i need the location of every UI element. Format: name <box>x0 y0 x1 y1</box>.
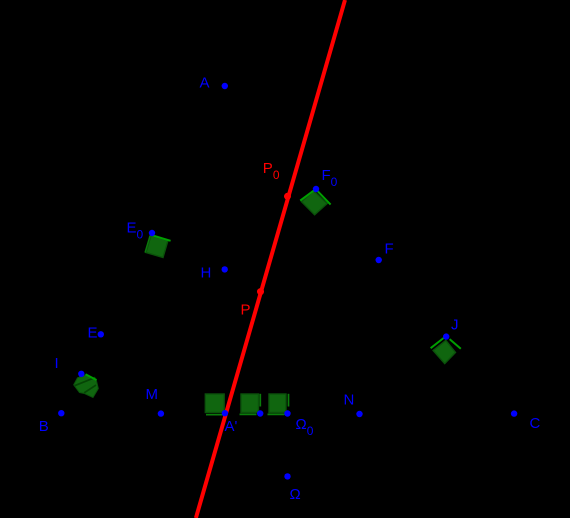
segment bright top-left edge of J square <box>431 338 444 348</box>
point A' <box>222 410 228 416</box>
svg-text:P: P <box>241 302 251 319</box>
point I <box>78 371 84 377</box>
point C <box>511 410 517 416</box>
segment bright top-right edge of J square <box>450 339 461 349</box>
segment bright right edge of square 3 <box>288 394 290 407</box>
segment bright bottom edge of square 1 <box>206 414 223 416</box>
point F0 <box>313 186 319 192</box>
svg-text:N: N <box>344 391 355 408</box>
square 2 of row (fill) <box>241 394 259 413</box>
segment bright bottom edge of square 3 <box>268 413 285 415</box>
point B <box>58 410 64 416</box>
segment bright left edge of E0 square <box>145 236 150 253</box>
square 3 of row (left of Omega0, fill) <box>269 394 286 413</box>
square on F0 (rotated 45, fill) <box>302 191 328 215</box>
svg-text:J: J <box>451 317 459 334</box>
point Omega0 <box>284 410 290 416</box>
point H <box>222 266 228 272</box>
point Omega <box>284 473 290 479</box>
svg-text:B: B <box>39 418 49 435</box>
segment bright top-right edge of F0 square <box>317 190 331 204</box>
segment bright top-left edge of F0 square <box>300 189 315 200</box>
segment bright bottom edge of square 2 <box>240 413 257 415</box>
square on I (overlapping squares blob, fill) <box>74 375 99 398</box>
svg-text:A: A <box>200 75 210 92</box>
segment bright top-right edge of I square <box>86 374 97 380</box>
point A <box>222 83 228 89</box>
svg-text:C: C <box>530 415 541 432</box>
segment dark lower diagonal across I squares <box>84 385 96 393</box>
point E <box>98 331 104 337</box>
point M <box>158 410 164 416</box>
point P (red) <box>257 288 264 295</box>
point N <box>356 411 362 417</box>
segment bright top edge of E0 square <box>150 235 171 241</box>
segment dark upper diagonal across I squares <box>75 377 96 385</box>
square 1 of row (left of A', fill) <box>205 394 224 413</box>
segment bright right edge of square 2 <box>259 394 261 407</box>
square on E0 (rotated ~16deg, fill) <box>146 236 168 258</box>
square on J (rotated 45, fill) <box>433 340 455 363</box>
point J <box>443 333 449 339</box>
svg-text:A': A' <box>225 418 238 435</box>
point E0 <box>149 230 155 236</box>
svg-text:H: H <box>201 265 212 282</box>
svg-text:E: E <box>88 325 98 342</box>
svg-text:F: F <box>385 240 394 257</box>
point P0 (red) <box>284 193 291 200</box>
svg-text:I: I <box>55 355 59 372</box>
svg-text:Ω: Ω <box>290 486 301 503</box>
point unnamed (between A' and Omega0) <box>257 410 263 416</box>
svg-text:M: M <box>146 386 159 403</box>
point F <box>376 257 382 263</box>
line f (red line through P0, P, A') <box>196 0 345 518</box>
